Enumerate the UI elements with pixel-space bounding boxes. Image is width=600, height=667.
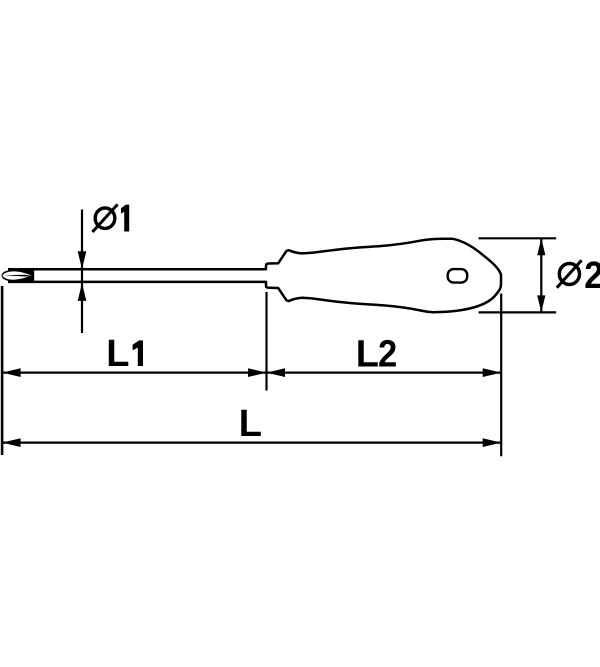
svg-text:2: 2 <box>378 332 397 375</box>
svg-text:L: L <box>106 333 129 375</box>
svg-text:L: L <box>239 403 262 445</box>
svg-text:2: 2 <box>584 253 600 296</box>
svg-text:L: L <box>356 333 379 375</box>
